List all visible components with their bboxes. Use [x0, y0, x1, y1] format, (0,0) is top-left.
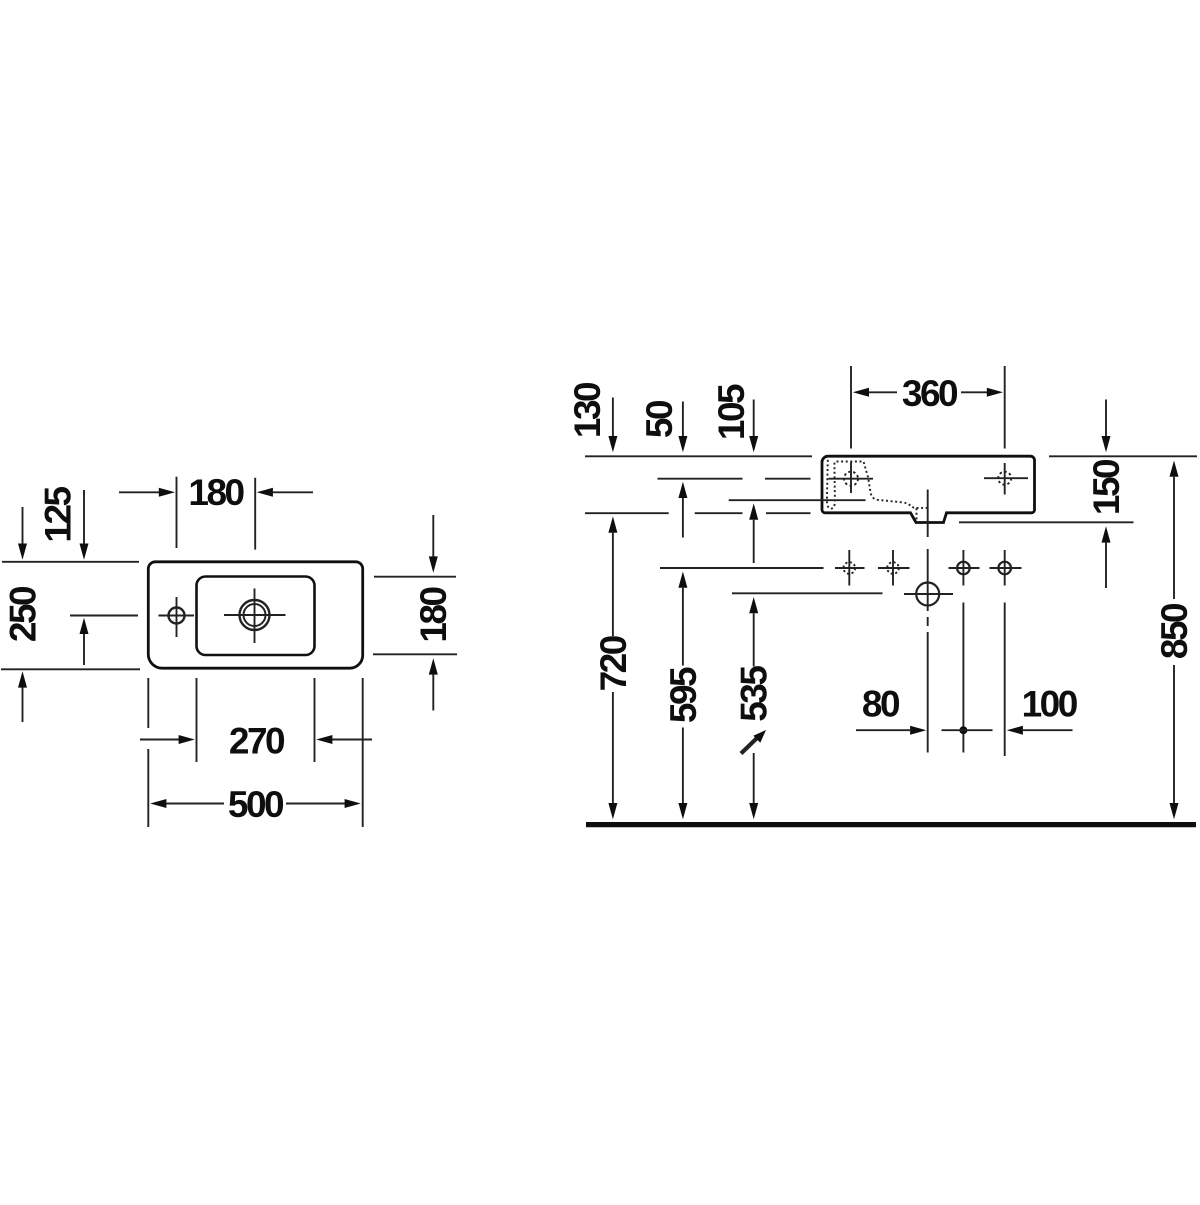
535 level line	[732, 592, 883, 594]
dim 150 top arrow	[1105, 400, 1107, 437]
drain cross horizontal	[224, 614, 286, 616]
svg-text:180: 180	[413, 586, 454, 642]
faucet cross vertical	[176, 597, 178, 637]
dim 500 right extension line	[362, 678, 364, 827]
svg-text:850: 850	[1154, 603, 1195, 659]
dim 500 left extension line (two segments)	[147, 678, 149, 728]
dim 80/100 middle line	[942, 729, 993, 731]
svg-text:80: 80	[862, 684, 900, 725]
drain centerline segments	[927, 490, 929, 538]
svg-text:100: 100	[1022, 684, 1078, 725]
drain outer circle	[240, 600, 270, 630]
dim 50 bottom arrow	[678, 482, 687, 498]
dim 270 right arrow	[332, 739, 372, 741]
right tap hole dashed circle	[998, 472, 1011, 485]
svg-text:125: 125	[38, 486, 79, 542]
basin body outline with outlet	[822, 456, 1035, 522]
top edge reference line left	[2, 561, 139, 563]
dim 105 top arrow	[753, 400, 755, 437]
basin inner bowl rect	[197, 577, 315, 656]
basin bottom level line segment a	[585, 512, 669, 514]
dim 850 lower line and floor arrow	[1173, 665, 1175, 803]
outlet direction arrow	[741, 739, 757, 754]
dim 850 top arrow	[1170, 461, 1179, 477]
svg-text:50: 50	[639, 400, 680, 438]
faucet cross horizontal	[159, 615, 195, 617]
svg-text:360: 360	[902, 373, 958, 414]
drain circle	[916, 583, 939, 606]
dim 535 lower line and floor arrow	[753, 753, 755, 803]
svg-text:270: 270	[229, 720, 285, 761]
svg-text:535: 535	[734, 666, 775, 722]
bolt hole 3	[957, 562, 970, 575]
svg-text:250: 250	[3, 586, 44, 642]
dim 250 upper arrow	[22, 507, 24, 544]
bolt hole level line	[660, 567, 824, 569]
bottom edge reference line left	[1, 668, 140, 670]
dim 720 lower line and floor arrow	[612, 692, 614, 803]
dim 180 top: faucet extension line	[176, 477, 178, 548]
dim 500 right arrow	[286, 803, 345, 805]
dim 130 top arrow	[612, 398, 614, 437]
105 level reference line	[729, 499, 866, 501]
dim 500 left arrow	[150, 799, 166, 808]
dim 180 right lower arrow	[432, 675, 434, 711]
bolt hole 1 (dashed)	[844, 562, 856, 574]
basin outer outline	[148, 562, 362, 668]
dim 360 right arrow	[961, 391, 987, 393]
dim 270 left arrow	[140, 739, 179, 741]
rim reference line left segment	[585, 455, 812, 457]
bolt hole 3 extension line	[962, 603, 964, 753]
svg-text:500: 500	[228, 784, 284, 825]
bolt hole 4 extension line	[1004, 603, 1006, 757]
dim 125 lower arrow	[83, 634, 85, 665]
svg-text:180: 180	[188, 472, 244, 513]
hidden bowl profile: bowl and channel (dotted)	[837, 462, 917, 522]
tap level reference line segment b	[765, 478, 811, 480]
left tap cross horizontal	[829, 478, 874, 480]
dim 180 top left arrow	[119, 491, 160, 493]
faucet hole	[169, 608, 185, 624]
basin bottom level line segment c	[766, 512, 811, 514]
dim 50 top arrow	[682, 402, 684, 437]
dim 270 right extension line	[314, 678, 316, 762]
dim 105 bottom arrow	[749, 503, 758, 519]
dim 180 right: upper line	[374, 576, 456, 578]
dim 130 bottom arrow / dim 720 top arrow	[608, 516, 617, 532]
hidden bowl profile: outlet edge (dotted)	[917, 507, 928, 509]
dim 595 lower line and floor arrow	[682, 728, 684, 804]
right tap cross horizontal	[984, 477, 1028, 479]
rim reference line right segment	[1049, 455, 1197, 457]
floor line	[586, 822, 1196, 827]
dim 535 top arrow	[749, 597, 758, 613]
left tap cross vertical	[850, 463, 852, 494]
dim 250 lower arrow	[22, 688, 24, 723]
hidden bowl profile: left wall (dotted)	[827, 460, 835, 509]
dim 180 right: lower line	[373, 653, 457, 655]
dim 150 bottom arrow	[1102, 526, 1111, 542]
dim 100 arrow line	[1007, 726, 1023, 735]
faucet level reference line left	[70, 615, 138, 617]
basin bottom level line segment b	[695, 512, 743, 514]
dim 180 top: drain extension line	[254, 478, 256, 550]
dim 360 left extension line	[850, 366, 852, 449]
drain cross horizontal	[904, 593, 953, 595]
dim 270 left extension line	[196, 678, 198, 762]
svg-text:130: 130	[567, 382, 608, 438]
dim 180 right upper arrow	[432, 515, 434, 557]
drain cross vertical	[254, 589, 256, 644]
dim 125 upper arrow	[83, 490, 85, 544]
svg-text:595: 595	[663, 667, 704, 723]
left tap hole dashed circle	[844, 472, 858, 486]
dim 80 arrow line	[856, 729, 910, 731]
supply dot	[959, 726, 967, 734]
drain inner circle	[244, 604, 266, 626]
tap level reference line segment a	[658, 478, 743, 480]
outlet bottom level line	[959, 521, 1134, 523]
dim 180 top right arrow	[272, 491, 313, 493]
dim 595 top arrow	[678, 572, 687, 588]
dim 360 left arrow	[853, 388, 869, 397]
svg-text:150: 150	[1086, 459, 1127, 515]
dim 360 right extension line	[1004, 366, 1006, 449]
right tap cross vertical	[1004, 463, 1006, 495]
bolt hole 2 (dashed)	[887, 562, 899, 574]
svg-text:720: 720	[593, 635, 634, 691]
svg-text:105: 105	[711, 384, 752, 440]
bolt hole 4	[998, 562, 1011, 575]
